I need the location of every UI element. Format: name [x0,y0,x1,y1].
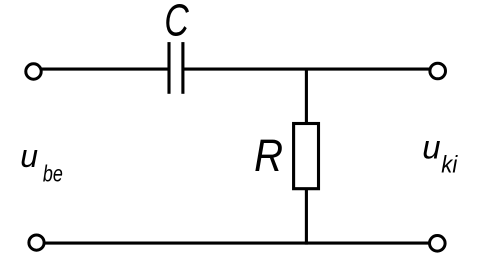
svg-text:be: be [43,161,63,187]
terminal top-right [430,63,446,79]
svg-text:C: C [164,0,189,45]
resistor R body [294,124,319,189]
svg-text:R: R [254,131,283,182]
wire bottom [45,242,430,245]
svg-text:u: u [422,129,440,166]
wire top-left segment [42,68,169,71]
wire resistor bottom to bottom rail [305,189,308,245]
svg-text:u: u [20,138,38,174]
wire top-right segment [184,68,430,71]
capacitor C left plate [167,42,170,94]
svg-text:ki: ki [441,151,458,178]
terminal bottom-right [430,236,446,252]
terminal top-left [26,64,41,79]
wire junction to resistor top [305,68,308,123]
terminal bottom-left [29,235,44,250]
capacitor C right plate [181,42,184,94]
